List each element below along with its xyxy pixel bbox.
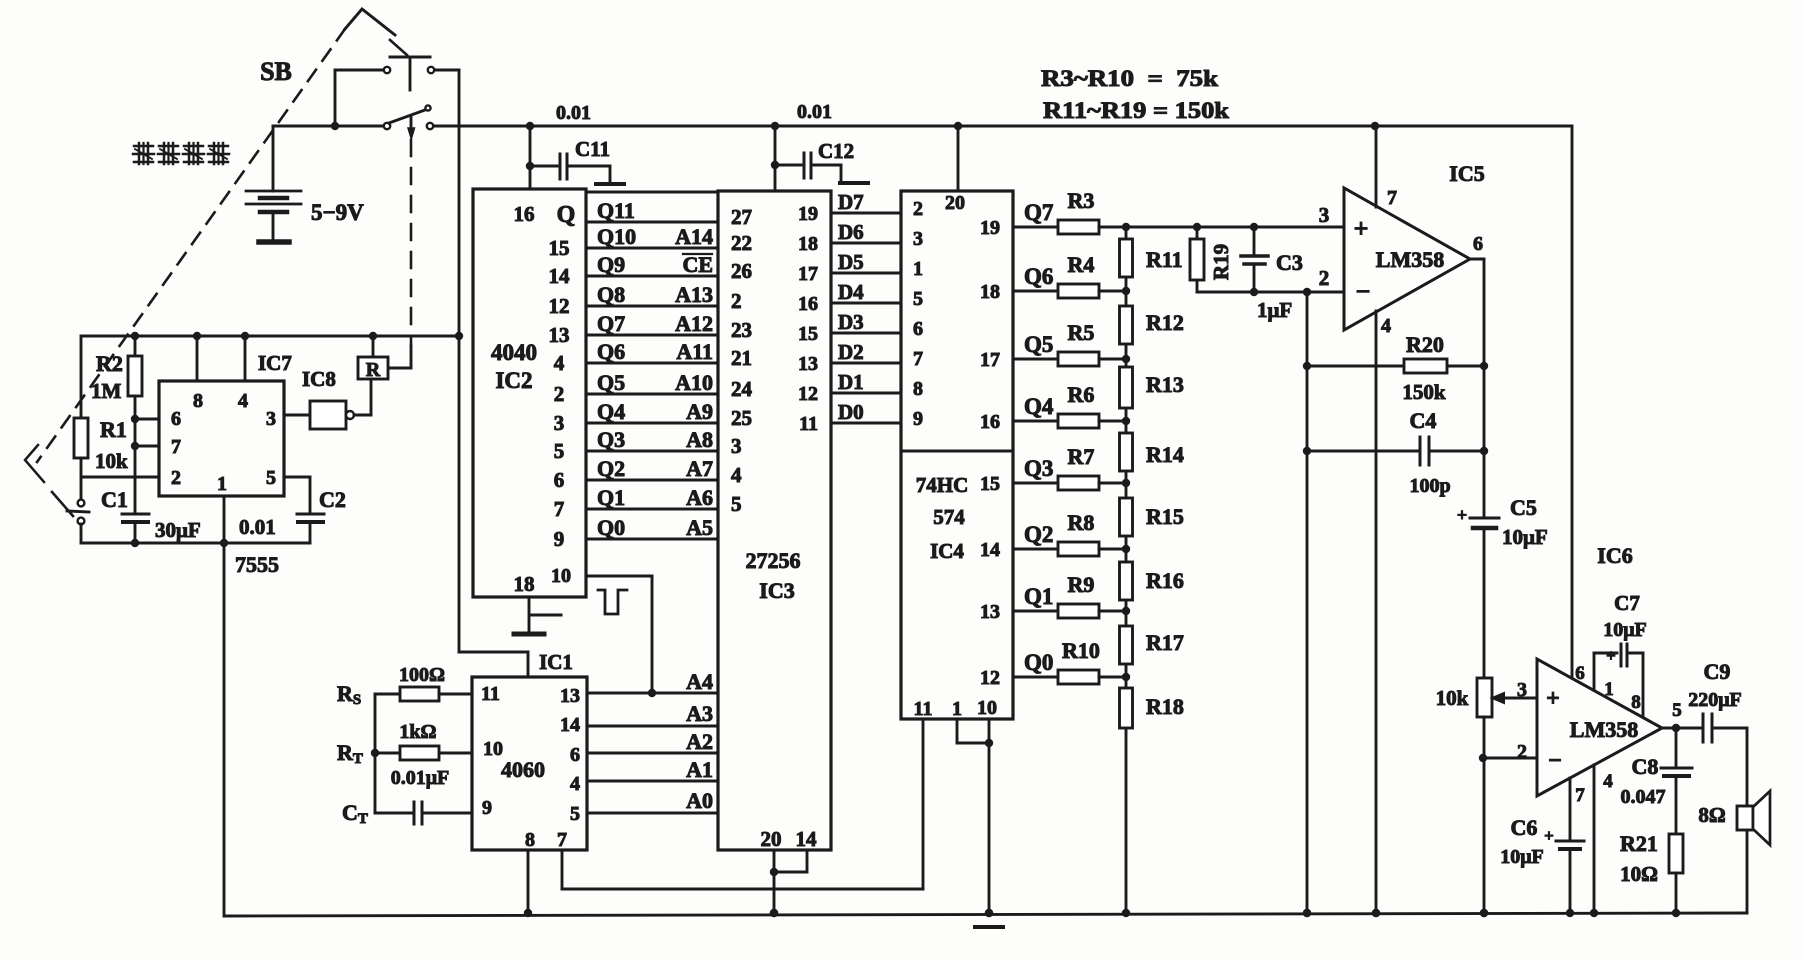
svg-text:SB: SB	[260, 57, 292, 86]
svg-text:10: 10	[977, 697, 997, 719]
svg-text:C9: C9	[1704, 659, 1731, 684]
svg-text:C3: C3	[1276, 250, 1303, 275]
svg-text:A10: A10	[675, 370, 713, 395]
svg-text:12: 12	[980, 667, 1000, 689]
svg-text:+: +	[1354, 214, 1369, 243]
svg-text:1: 1	[217, 473, 227, 495]
svg-text:Q6: Q6	[597, 339, 625, 364]
svg-text:13: 13	[798, 353, 818, 375]
svg-text:18: 18	[514, 572, 535, 596]
svg-text:0.01μF: 0.01μF	[391, 767, 450, 789]
svg-text:10: 10	[483, 738, 503, 760]
svg-text:5: 5	[554, 439, 565, 463]
svg-text:5: 5	[266, 467, 276, 489]
svg-text:2: 2	[913, 198, 923, 220]
svg-text:Q7: Q7	[597, 311, 625, 336]
svg-text:8: 8	[1631, 692, 1641, 713]
svg-text:18: 18	[798, 233, 818, 255]
svg-text:8: 8	[913, 378, 923, 400]
svg-text:16: 16	[798, 293, 818, 315]
svg-text:D2: D2	[838, 340, 864, 364]
svg-text:LM358: LM358	[1376, 247, 1444, 272]
svg-text:17: 17	[798, 263, 818, 285]
svg-text:R2: R2	[96, 351, 123, 376]
svg-text:R5: R5	[1068, 320, 1095, 345]
svg-text:11: 11	[914, 698, 933, 720]
svg-text:1: 1	[913, 258, 923, 280]
svg-text:Q10: Q10	[597, 224, 636, 249]
svg-text:1μF: 1μF	[1257, 298, 1292, 322]
svg-text:R3~R10 = 75k: R3~R10 = 75k	[1041, 66, 1218, 91]
svg-text:R6: R6	[1068, 382, 1095, 407]
svg-text:Q: Q	[557, 202, 576, 228]
svg-text:6: 6	[913, 318, 923, 340]
svg-text:13: 13	[560, 685, 580, 707]
svg-text:R19: R19	[1209, 244, 1233, 280]
svg-text:Q0: Q0	[597, 515, 625, 540]
svg-text:IC7: IC7	[258, 351, 292, 375]
svg-text:6: 6	[171, 408, 181, 430]
svg-text:4: 4	[238, 390, 248, 412]
svg-text:4: 4	[1381, 315, 1391, 337]
svg-text:5: 5	[570, 803, 580, 825]
svg-text:0.047: 0.047	[1621, 786, 1666, 808]
svg-text:Q1: Q1	[597, 485, 625, 510]
svg-text:D5: D5	[838, 250, 864, 274]
svg-text:14: 14	[980, 539, 1000, 561]
svg-text:R9: R9	[1068, 572, 1095, 597]
svg-text:D4: D4	[838, 280, 864, 304]
svg-text:C7: C7	[1614, 591, 1640, 615]
svg-text:220μF: 220μF	[1688, 689, 1742, 711]
svg-text:3: 3	[1319, 203, 1330, 227]
svg-text:R11: R11	[1146, 247, 1183, 272]
svg-text:7: 7	[171, 436, 181, 458]
svg-text:15: 15	[980, 473, 1000, 495]
svg-text:Q2: Q2	[1024, 522, 1053, 547]
svg-text:+: +	[1606, 646, 1616, 665]
svg-text:R14: R14	[1146, 442, 1184, 467]
svg-text:C12: C12	[818, 139, 854, 163]
svg-text:10μF: 10μF	[1500, 846, 1544, 868]
svg-text:3: 3	[266, 408, 276, 430]
svg-text:Q6: Q6	[1024, 264, 1053, 289]
svg-text:7: 7	[1575, 785, 1585, 806]
svg-text:3: 3	[554, 411, 565, 435]
svg-text:150k: 150k	[1402, 380, 1446, 404]
svg-text:10: 10	[551, 565, 571, 587]
svg-text:11: 11	[799, 413, 818, 435]
svg-text:9: 9	[913, 408, 923, 430]
svg-text:4: 4	[731, 463, 742, 487]
svg-text:10Ω: 10Ω	[1620, 862, 1658, 886]
svg-text:R7: R7	[1068, 444, 1095, 469]
svg-text:100p: 100p	[1409, 475, 1450, 497]
svg-text:16: 16	[514, 202, 535, 226]
svg-text:R20: R20	[1406, 332, 1444, 357]
svg-text:+: +	[1457, 505, 1467, 525]
svg-text:D6: D6	[838, 220, 864, 244]
svg-text:8: 8	[193, 390, 203, 412]
svg-text:25: 25	[731, 406, 752, 430]
svg-text:18: 18	[980, 281, 1000, 303]
svg-text:A0: A0	[686, 788, 713, 813]
svg-text:Q8: Q8	[597, 282, 625, 307]
svg-text:R15: R15	[1146, 504, 1184, 529]
svg-text:R21: R21	[1620, 831, 1658, 856]
svg-text:19: 19	[980, 217, 1000, 239]
svg-text:A8: A8	[686, 427, 713, 452]
svg-text:Q11: Q11	[597, 198, 635, 223]
svg-text:3: 3	[913, 228, 923, 250]
svg-text:IC1: IC1	[539, 650, 573, 674]
svg-text:7: 7	[1387, 187, 1397, 209]
svg-text:R3: R3	[1068, 188, 1095, 213]
svg-text:23: 23	[731, 318, 752, 342]
svg-text:Q4: Q4	[1024, 394, 1054, 419]
svg-text:R13: R13	[1146, 372, 1184, 397]
svg-text:IC4: IC4	[930, 539, 964, 563]
svg-text:2: 2	[554, 382, 565, 406]
svg-text:20: 20	[761, 827, 782, 851]
svg-text:1: 1	[952, 698, 962, 720]
svg-text:LM358: LM358	[1570, 717, 1638, 742]
svg-text:IC8: IC8	[302, 367, 336, 391]
svg-text:R16: R16	[1146, 568, 1184, 593]
svg-text:5: 5	[913, 288, 923, 310]
svg-text:A2: A2	[686, 729, 713, 754]
svg-text:6: 6	[1473, 233, 1483, 255]
svg-text:+: +	[1544, 826, 1554, 845]
svg-text:A9: A9	[686, 399, 713, 424]
svg-text:A3: A3	[686, 701, 713, 726]
svg-text:74HC: 74HC	[916, 473, 969, 497]
svg-text:Q7: Q7	[1024, 200, 1053, 225]
svg-text:7: 7	[913, 348, 923, 370]
svg-text:10k: 10k	[1436, 686, 1469, 710]
svg-text:16: 16	[980, 411, 1000, 433]
svg-text:5−9V: 5−9V	[311, 200, 364, 225]
svg-text:17: 17	[980, 349, 1000, 371]
svg-text:24: 24	[731, 377, 753, 401]
svg-text:13: 13	[980, 601, 1000, 623]
svg-text:14: 14	[560, 714, 580, 736]
svg-text:15: 15	[549, 236, 570, 260]
svg-text:12: 12	[549, 294, 570, 318]
svg-text:D1: D1	[838, 370, 864, 394]
svg-text:C11: C11	[575, 137, 610, 161]
svg-text:A5: A5	[686, 515, 713, 540]
svg-text:27256: 27256	[746, 548, 801, 573]
svg-text:R12: R12	[1146, 310, 1184, 335]
svg-text:6: 6	[1575, 663, 1585, 684]
svg-text:4040: 4040	[491, 340, 537, 365]
svg-text:26: 26	[731, 259, 752, 283]
svg-text:7: 7	[554, 497, 565, 521]
svg-text:3: 3	[1517, 679, 1527, 701]
svg-text:+: +	[1546, 686, 1560, 712]
svg-text:Q3: Q3	[1024, 456, 1053, 481]
svg-text:IC2: IC2	[495, 368, 532, 393]
svg-text:C6: C6	[1511, 815, 1538, 840]
svg-text:2: 2	[1517, 741, 1527, 763]
svg-text:C1: C1	[101, 487, 128, 512]
svg-text:2: 2	[1319, 266, 1330, 290]
svg-text:6: 6	[570, 744, 580, 766]
svg-text:D0: D0	[838, 400, 864, 424]
svg-text:574: 574	[933, 505, 965, 529]
svg-text:0.01: 0.01	[797, 101, 832, 123]
svg-text:R4: R4	[1068, 252, 1095, 277]
svg-text:1kΩ: 1kΩ	[399, 721, 436, 743]
svg-text:10k: 10k	[95, 449, 128, 473]
svg-text:6: 6	[554, 468, 565, 492]
svg-text:−: −	[1356, 277, 1371, 306]
svg-text:A6: A6	[686, 485, 713, 510]
svg-text:5: 5	[731, 492, 742, 516]
svg-text:22: 22	[731, 231, 752, 255]
svg-text:D3: D3	[838, 310, 864, 334]
svg-text:27: 27	[731, 205, 752, 229]
svg-text:8Ω: 8Ω	[1698, 803, 1725, 827]
svg-text:Q5: Q5	[1024, 332, 1053, 357]
svg-text:Q0: Q0	[1024, 650, 1053, 675]
svg-text:5: 5	[1672, 700, 1682, 721]
svg-text:0.01: 0.01	[239, 515, 276, 539]
svg-text:9: 9	[554, 527, 565, 551]
svg-text:C8: C8	[1632, 754, 1659, 779]
svg-text:A1: A1	[686, 757, 713, 782]
svg-text:R10: R10	[1062, 638, 1100, 663]
svg-text:R18: R18	[1146, 694, 1184, 719]
svg-text:D7: D7	[838, 190, 864, 214]
svg-text:Q1: Q1	[1024, 584, 1053, 609]
svg-text:2: 2	[171, 467, 181, 489]
svg-text:1: 1	[1604, 679, 1614, 700]
svg-text:CE: CE	[682, 252, 713, 277]
svg-text:Q2: Q2	[597, 456, 625, 481]
svg-text:R8: R8	[1068, 510, 1095, 535]
svg-text:21: 21	[731, 346, 752, 370]
svg-text:A13: A13	[675, 282, 713, 307]
svg-text:3: 3	[731, 434, 742, 458]
svg-text:R11~R19 = 150k: R11~R19 = 150k	[1043, 98, 1229, 123]
svg-text:IC5: IC5	[1449, 161, 1484, 186]
svg-text:Q9: Q9	[597, 252, 625, 277]
svg-text:14: 14	[796, 827, 818, 851]
svg-text:4: 4	[570, 773, 580, 795]
svg-text:R17: R17	[1146, 630, 1184, 655]
svg-text:A7: A7	[686, 456, 713, 481]
svg-text:13: 13	[549, 323, 570, 347]
svg-text:8: 8	[525, 829, 535, 851]
svg-text:12: 12	[798, 383, 818, 405]
svg-text:C2: C2	[319, 487, 346, 512]
svg-text:IC6: IC6	[1597, 543, 1632, 568]
svg-text:30μF: 30μF	[155, 518, 201, 542]
svg-text:C4: C4	[1410, 408, 1437, 433]
svg-text:4060: 4060	[501, 757, 545, 782]
svg-text:A14: A14	[675, 224, 713, 249]
svg-text:R: R	[366, 359, 381, 381]
svg-text:0.01: 0.01	[556, 102, 591, 124]
svg-text:IC3: IC3	[759, 578, 794, 603]
svg-text:C5: C5	[1510, 495, 1537, 520]
svg-text:9: 9	[482, 797, 492, 819]
svg-text:4: 4	[554, 351, 565, 375]
svg-text:A11: A11	[676, 339, 713, 364]
svg-text:19: 19	[798, 203, 818, 225]
svg-text:Q5: Q5	[597, 370, 625, 395]
svg-text:4: 4	[1603, 771, 1613, 792]
svg-text:Q3: Q3	[597, 427, 625, 452]
svg-text:20: 20	[945, 192, 965, 214]
svg-text:15: 15	[798, 323, 818, 345]
svg-text:Q4: Q4	[597, 399, 625, 424]
svg-text:7555: 7555	[235, 552, 279, 577]
svg-text:A4: A4	[686, 669, 713, 694]
svg-text:10μF: 10μF	[1502, 525, 1548, 549]
svg-text:1M: 1M	[91, 379, 122, 403]
svg-text:7: 7	[557, 829, 567, 851]
svg-text:A12: A12	[675, 311, 713, 336]
svg-text:14: 14	[549, 264, 571, 288]
svg-text:R1: R1	[100, 417, 127, 442]
svg-text:10μF: 10μF	[1603, 619, 1647, 641]
svg-text:100Ω: 100Ω	[399, 664, 445, 686]
svg-text:−: −	[1548, 748, 1562, 774]
svg-text:11: 11	[481, 683, 500, 705]
svg-text:2: 2	[731, 289, 742, 313]
